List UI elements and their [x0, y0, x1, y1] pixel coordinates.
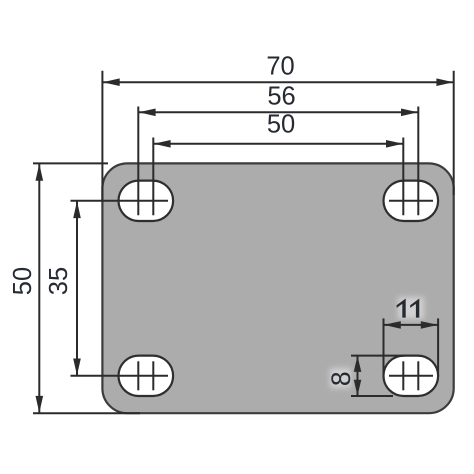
- svg-text:8: 8: [326, 371, 356, 386]
- svg-text:50: 50: [267, 111, 295, 139]
- svg-text:35: 35: [45, 267, 73, 295]
- svg-text:70: 70: [266, 53, 294, 81]
- svg-text:50: 50: [9, 267, 37, 295]
- svg-text:56: 56: [267, 83, 295, 111]
